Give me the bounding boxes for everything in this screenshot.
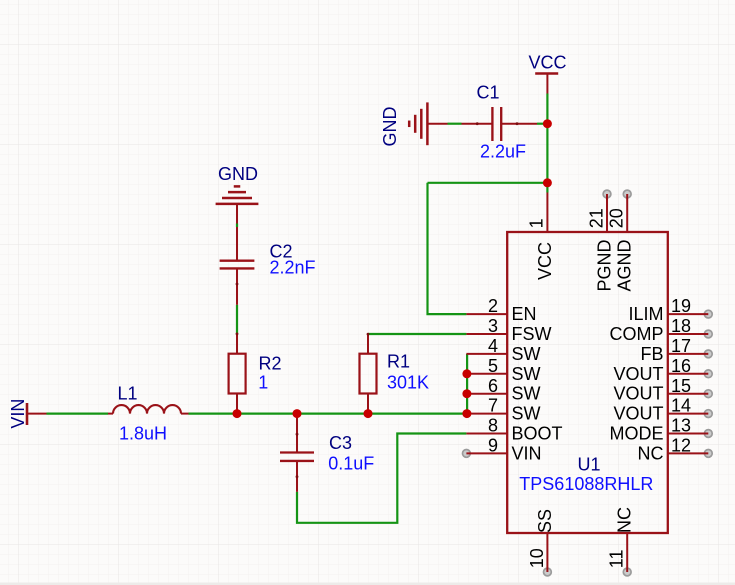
svg-text:L1: L1 xyxy=(118,384,138,404)
svg-text:301K: 301K xyxy=(387,373,429,393)
svg-text:VIN: VIN xyxy=(8,399,28,429)
svg-text:11: 11 xyxy=(607,550,627,569)
svg-text:SS: SS xyxy=(535,509,555,533)
svg-text:0.1uF: 0.1uF xyxy=(328,454,374,474)
svg-text:SW: SW xyxy=(512,404,541,424)
svg-text:12: 12 xyxy=(671,436,691,456)
svg-text:VCC: VCC xyxy=(528,53,566,73)
svg-text:VCC: VCC xyxy=(535,242,555,280)
svg-text:2.2uF: 2.2uF xyxy=(480,142,526,162)
svg-text:BOOT: BOOT xyxy=(512,424,563,444)
svg-text:ILIM: ILIM xyxy=(628,304,663,324)
svg-text:2: 2 xyxy=(488,296,498,316)
svg-text:NC: NC xyxy=(638,443,664,463)
svg-text:VOUT: VOUT xyxy=(613,404,663,424)
svg-text:MODE: MODE xyxy=(610,424,664,444)
svg-text:1: 1 xyxy=(258,372,268,392)
svg-text:21: 21 xyxy=(586,208,606,228)
svg-text:6: 6 xyxy=(488,376,498,396)
svg-text:COMP: COMP xyxy=(610,324,664,344)
svg-text:AGND: AGND xyxy=(615,239,635,291)
svg-text:7: 7 xyxy=(488,396,498,416)
svg-text:19: 19 xyxy=(671,296,691,316)
svg-text:16: 16 xyxy=(671,356,691,376)
svg-text:3: 3 xyxy=(488,316,498,336)
svg-text:U1: U1 xyxy=(578,455,601,475)
svg-text:FSW: FSW xyxy=(512,324,552,344)
svg-text:C3: C3 xyxy=(329,433,352,453)
svg-text:1: 1 xyxy=(527,218,547,228)
svg-text:EN: EN xyxy=(512,304,537,324)
svg-text:1.8uH: 1.8uH xyxy=(119,424,167,444)
svg-text:18: 18 xyxy=(671,316,691,336)
svg-text:8: 8 xyxy=(488,416,498,436)
svg-text:SW: SW xyxy=(512,364,541,384)
svg-text:FB: FB xyxy=(640,344,663,364)
svg-text:PGND: PGND xyxy=(595,239,615,291)
svg-text:4: 4 xyxy=(488,336,498,356)
svg-text:GND: GND xyxy=(218,164,258,184)
svg-text:5: 5 xyxy=(488,356,498,376)
svg-text:17: 17 xyxy=(671,336,691,356)
svg-text:10: 10 xyxy=(527,548,547,568)
svg-text:NC: NC xyxy=(615,507,635,533)
svg-text:R1: R1 xyxy=(387,352,410,372)
svg-text:VOUT: VOUT xyxy=(613,364,663,384)
svg-text:15: 15 xyxy=(671,376,691,396)
svg-text:SW: SW xyxy=(512,384,541,404)
svg-text:R2: R2 xyxy=(259,354,282,374)
svg-text:VOUT: VOUT xyxy=(613,384,663,404)
svg-text:C1: C1 xyxy=(477,83,500,103)
svg-text:13: 13 xyxy=(671,416,691,436)
svg-text:SW: SW xyxy=(512,344,541,364)
svg-text:2.2nF: 2.2nF xyxy=(270,258,316,278)
svg-text:GND: GND xyxy=(380,107,400,147)
svg-text:TPS61088RHLR: TPS61088RHLR xyxy=(519,474,653,494)
svg-text:VIN: VIN xyxy=(512,443,542,463)
svg-text:20: 20 xyxy=(607,208,627,228)
svg-text:9: 9 xyxy=(488,436,498,456)
svg-text:14: 14 xyxy=(671,396,691,416)
